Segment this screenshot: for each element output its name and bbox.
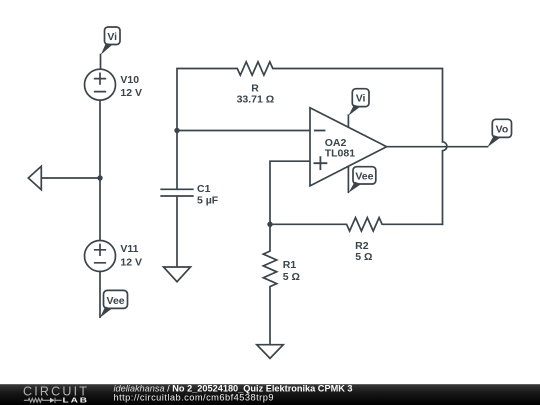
svg-text:5 Ω: 5 Ω bbox=[355, 251, 372, 263]
svg-text:Vi: Vi bbox=[107, 31, 117, 43]
svg-text:5 Ω: 5 Ω bbox=[283, 271, 300, 283]
svg-text:V11: V11 bbox=[120, 243, 138, 255]
svg-text:33.71 Ω: 33.71 Ω bbox=[237, 93, 275, 105]
svg-text:http://circuitlab.com/cm6bf453: http://circuitlab.com/cm6bf4538trp9 bbox=[114, 392, 274, 402]
svg-text:V10: V10 bbox=[120, 74, 139, 86]
svg-text:Vi: Vi bbox=[356, 93, 366, 105]
svg-text:TL081: TL081 bbox=[325, 148, 356, 160]
svg-text:Vee: Vee bbox=[107, 295, 125, 307]
svg-text:R1: R1 bbox=[283, 259, 297, 271]
svg-text:12 V: 12 V bbox=[120, 87, 142, 99]
svg-text:Vee: Vee bbox=[355, 170, 373, 182]
svg-text:C1: C1 bbox=[197, 183, 211, 195]
svg-text:12 V: 12 V bbox=[120, 256, 142, 268]
svg-text:5 µF: 5 µF bbox=[197, 195, 219, 207]
svg-text:LAB: LAB bbox=[63, 396, 90, 404]
svg-text:Vo: Vo bbox=[496, 124, 509, 136]
